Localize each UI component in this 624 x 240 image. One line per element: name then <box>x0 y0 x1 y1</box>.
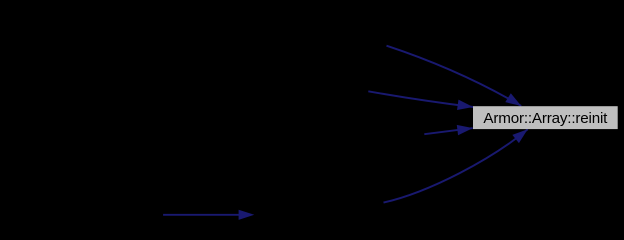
svg-text:Armor::Array::reinit: Armor::Array::reinit <box>483 110 608 127</box>
wire: edge caller1 -> reinit (top curve) <box>387 46 522 106</box>
wire: edge caller2 -> reinit (upper-left nearly straight) <box>368 91 473 110</box>
wire: edge caller4 -> reinit (bottom curve) <box>384 129 528 202</box>
wire: edge caller3 -> reinit (short middle) <box>424 125 473 135</box>
node Armor::Array::reinit <box>473 106 618 129</box>
wire: edge caller5 -> caller4 (bottom straight arrow) <box>163 210 254 220</box>
